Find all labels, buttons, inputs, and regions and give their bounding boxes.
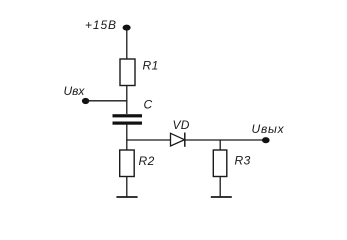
capacitor C top plate bbox=[113, 114, 143, 117]
wire junction to diode anode bbox=[126, 139, 170, 141]
svg-text:VD: VD bbox=[173, 118, 190, 132]
wire capacitor to R2 bbox=[126, 125, 128, 151]
terminal dot +15V bbox=[123, 25, 131, 31]
diode VD cathode bar bbox=[184, 133, 186, 147]
ground bar under R3 bbox=[211, 196, 232, 198]
node Uвх terminal dot bbox=[82, 98, 89, 104]
wire R1 to capacitor bbox=[126, 86, 128, 115]
svg-text:R3: R3 bbox=[235, 153, 251, 167]
resistor R2 bbox=[120, 150, 135, 177]
wire +15V to R1 bbox=[126, 28, 128, 59]
svg-text:Uвых: Uвых bbox=[252, 122, 285, 136]
svg-text:R1: R1 bbox=[143, 59, 159, 73]
node Uвых terminal dot bbox=[262, 137, 270, 143]
resistor R1 bbox=[120, 59, 135, 86]
diode VD triangle bbox=[171, 133, 185, 146]
wire R3 to ground bbox=[219, 177, 221, 198]
svg-text:Uвх: Uвх bbox=[64, 84, 86, 98]
wire Uвх to junction bbox=[86, 100, 128, 102]
svg-text:R2: R2 bbox=[139, 154, 155, 168]
svg-text:+15В: +15В bbox=[85, 18, 117, 32]
capacitor C bottom plate bbox=[113, 122, 143, 125]
wire diode to output bbox=[185, 139, 266, 141]
wire R2 to ground bbox=[126, 177, 128, 198]
svg-text:C: C bbox=[144, 98, 153, 112]
ground bar under R2 bbox=[116, 196, 137, 198]
resistor R3 bbox=[213, 150, 227, 177]
wire junction to R3 bbox=[219, 140, 221, 150]
